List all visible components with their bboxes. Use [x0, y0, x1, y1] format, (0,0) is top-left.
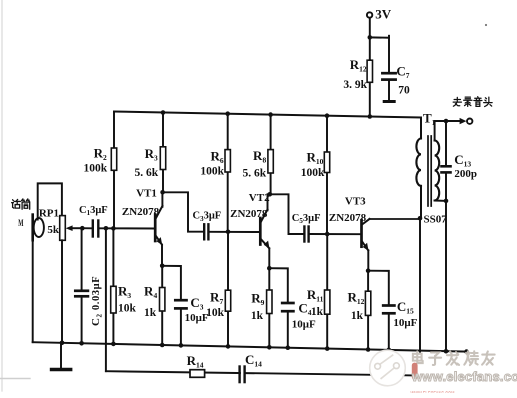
wire junction to C1: [82, 227, 92, 229]
node wiper/C2 junction: [80, 226, 85, 231]
svg-text:R12: R12: [348, 290, 365, 307]
svg-text:100k: 100k: [200, 165, 224, 177]
potentiometer RP1: [60, 216, 66, 241]
node ground dot R12e: [366, 347, 371, 352]
resistor R10 100k: [326, 116, 328, 234]
capacitor C4 10uF bypass: [269, 268, 293, 348]
microphone MIC: [33, 215, 44, 241]
node ground dot R7: [226, 344, 231, 349]
svg-text:1k: 1k: [311, 306, 324, 318]
wire VT3 collector to transformer: [362, 219, 370, 225]
svg-text:1k: 1k: [251, 310, 264, 322]
wire secondary bottom to ground bus: [445, 201, 447, 351]
svg-text:10μF: 10μF: [393, 317, 417, 329]
svg-text:R11: R11: [307, 287, 324, 304]
svg-text:C3: C3: [190, 295, 203, 312]
node bus dot R10: [325, 113, 330, 118]
wire feedback line: [106, 371, 413, 375]
node ground dot C4: [286, 345, 291, 350]
resistor R6 100k: [227, 114, 229, 232]
wire mic top loop to RP1: [38, 183, 62, 219]
resistor R11 1k: [326, 234, 328, 349]
svg-text:R8: R8: [253, 148, 266, 165]
node R2/R3 joins base: [111, 226, 116, 231]
wire VT2 emitter down: [268, 248, 270, 268]
wire primary bottom down to feedback line: [419, 218, 421, 351]
wire mic bottom to ground: [32, 238, 34, 342]
resistor R14: [190, 370, 205, 378]
svg-text:www.elecfans.com: www.elecfans.com: [411, 369, 517, 384]
svg-text:10k: 10k: [118, 303, 137, 315]
svg-text:R12: R12: [350, 57, 367, 74]
node secondary/C13 top: [444, 119, 449, 124]
node bus dot R3: [161, 110, 166, 115]
capacitor C5 coupling 3uF: [303, 227, 305, 242]
node bus dot R12: [368, 114, 373, 119]
capacitor C1: [92, 221, 94, 237]
label qu lu yin tou (to recording head): [453, 97, 461, 106]
node VT2 emitter junction: [267, 266, 272, 271]
output arrow: [460, 118, 467, 124]
wire C5 to VT3 base: [310, 233, 361, 235]
svg-text:SS07: SS07: [424, 214, 448, 226]
wire C3 to VT2 base: [210, 231, 260, 233]
svg-text:R10: R10: [307, 150, 324, 167]
node bus dot R8: [268, 112, 273, 117]
svg-text:1k: 1k: [351, 310, 364, 322]
node ground dot R3b: [111, 342, 116, 347]
wire VT1 collector up to R3/dot: [161, 192, 163, 207]
svg-text:70: 70: [398, 85, 410, 97]
ground symbol: [52, 343, 71, 370]
node primary bottom / SS07: [418, 216, 423, 221]
wire VT3 emitter down: [367, 250, 369, 270]
wire RP1 bottom to ground: [61, 240, 63, 342]
transistor VT3: [362, 220, 369, 251]
svg-text:C2 0.03μF: C2 0.03μF: [90, 276, 103, 326]
svg-text:1k: 1k: [144, 307, 157, 319]
capacitor C13 200p: [442, 121, 451, 201]
svg-text:10μF: 10μF: [292, 318, 316, 330]
transistor VT2: [260, 210, 269, 249]
wire C1 to base node: [99, 227, 155, 229]
wire secondary top to output: [435, 121, 460, 141]
svg-text:10k: 10k: [206, 307, 225, 319]
svg-text:C14: C14: [245, 352, 262, 369]
svg-text:R3: R3: [118, 284, 131, 301]
resistor R12: [369, 60, 371, 117]
svg-text:C13: C13: [454, 152, 471, 169]
node VT3 base bias: [325, 232, 330, 237]
node ground dot R11: [325, 346, 330, 351]
node ground dot C3e: [179, 343, 184, 348]
node junction 3V/C7: [368, 35, 373, 40]
svg-text:VT3: VT3: [345, 196, 366, 208]
node 3V terminal: [367, 12, 372, 17]
svg-text:R3: R3: [145, 146, 158, 163]
resistor R7 10k: [227, 232, 229, 347]
resistor R4 1k: [161, 266, 163, 345]
svg-text:C7: C7: [396, 64, 409, 81]
svg-text:C13μF: C13μF: [79, 205, 108, 217]
svg-text:C33μF: C33μF: [193, 211, 222, 223]
transistor VT1: [155, 206, 162, 245]
svg-text:VT1: VT1: [136, 188, 157, 200]
wire primary bottom: [420, 186, 422, 218]
node VT1 collector: [160, 190, 165, 195]
svg-text:C53μF: C53μF: [292, 213, 321, 225]
transformer core: [428, 136, 431, 206]
capacitor C3 coupling 3uF: [203, 224, 205, 239]
capacitor C15 10uF bypass: [368, 271, 394, 350]
svg-text:C15: C15: [397, 299, 414, 316]
resistor R8 5.6k: [270, 115, 272, 195]
node VT2 collector: [268, 192, 273, 197]
node ground dot R4: [160, 343, 165, 348]
node bus dot R6: [225, 111, 230, 116]
watermark red bar: [412, 363, 418, 380]
svg-text:R4: R4: [144, 284, 157, 301]
wire bus corner down to transformer primary: [420, 118, 422, 139]
resistor R12e 1k: [367, 271, 369, 350]
svg-text:5. 6k: 5. 6k: [243, 168, 267, 180]
capacitor C3e 10uF bypass: [162, 266, 186, 346]
svg-text:5. 6k: 5. 6k: [135, 167, 159, 179]
wire VT2 collector: [267, 194, 269, 210]
wire collector to C5 coupling: [270, 194, 304, 234]
resistor R3: [162, 113, 164, 193]
transformer T1 primary winding: [416, 139, 421, 186]
wiper arrow RP1: [66, 225, 83, 231]
resistor R3b (base-gnd 10k): [112, 228, 114, 344]
svg-text:R2: R2: [94, 146, 107, 163]
capacitor C14: [241, 371, 244, 377]
node ground dot C2: [79, 341, 84, 346]
svg-text:100k: 100k: [84, 163, 108, 175]
svg-text:ZN2078: ZN2078: [230, 208, 268, 220]
node ground dot R9: [267, 345, 272, 350]
svg-text:100k: 100k: [301, 167, 325, 179]
output terminal circle: [467, 119, 472, 124]
wire collector to C3 coupling: [163, 192, 204, 231]
node VT1 emitter junction: [160, 264, 165, 269]
node ground dot T1 secondary: [444, 349, 449, 354]
capacitor C7: [382, 73, 395, 101]
resistor R9 1k: [268, 268, 270, 347]
label huatong (microphone): [12, 199, 21, 208]
transformer T1 secondary winding: [435, 141, 440, 201]
node ground dot bus end: [464, 349, 469, 354]
wire VT1 emitter down: [161, 245, 163, 266]
capacitor C2: [75, 228, 88, 343]
svg-text:R6: R6: [210, 149, 223, 166]
node VT2 base bias: [226, 230, 231, 235]
wire feedback vertical from base node: [105, 228, 107, 371]
svg-text:M: M: [18, 219, 23, 229]
node ground dot C15: [387, 348, 392, 353]
watermark logo circle: [370, 350, 406, 386]
wire secondary bottom to C13 bottom: [435, 200, 446, 202]
svg-text:ZN2078: ZN2078: [329, 212, 367, 224]
wire junction to C7 top: [370, 36, 389, 38]
wire 3V down to junction and R12: [369, 18, 371, 61]
resistor R2: [113, 112, 115, 229]
node ground dot RP1: [60, 341, 65, 346]
svg-text:RP1: RP1: [39, 208, 59, 220]
svg-text:R14: R14: [187, 353, 204, 370]
node VT3 emitter junction: [366, 268, 371, 273]
node secondary bottom: [444, 199, 449, 204]
svg-text:5k: 5k: [47, 224, 60, 236]
svg-text:3. 9k: 3. 9k: [343, 79, 367, 91]
watermark dianzifashaoyou: [413, 351, 495, 365]
wire ground bus: [33, 342, 467, 351]
node feedback joins base: [104, 226, 109, 231]
svg-text:R7: R7: [210, 290, 223, 307]
svg-text:R9: R9: [251, 291, 264, 308]
wire top supply bus: [114, 112, 421, 118]
svg-text:200p: 200p: [454, 168, 477, 180]
svg-text:C4: C4: [298, 301, 311, 318]
svg-text:ZN2078: ZN2078: [122, 206, 160, 218]
svg-text:3V: 3V: [375, 7, 392, 22]
